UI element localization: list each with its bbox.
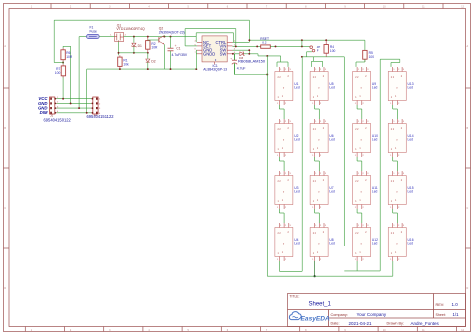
wire connector row 3	[57, 107, 92, 109]
connector J1 refdes	[50, 114, 54, 118]
junction jp row left	[301, 56, 303, 58]
LED module U10	[353, 119, 371, 157]
LED module U15	[388, 171, 406, 209]
svg-text:SW: SW	[220, 51, 227, 56]
net label DIM	[40, 110, 48, 115]
LED module U3	[275, 171, 293, 209]
junction D1 top	[133, 36, 135, 38]
junction return	[266, 74, 268, 76]
junction C1 gnd	[170, 68, 172, 70]
connector J2 pins	[91, 98, 101, 115]
wire U14 series link	[393, 157, 398, 171]
svg-text:4.7uF/35V: 4.7uF/35V	[172, 53, 188, 57]
wire C2 to return	[235, 74, 268, 76]
LED module U1	[275, 67, 293, 105]
svg-text:Led: Led	[372, 242, 378, 246]
junction row3	[78, 107, 80, 109]
wire col2 bottom ext	[314, 261, 316, 276]
label U6	[329, 134, 335, 142]
svg-text:Fuse: Fuse	[90, 29, 97, 33]
svg-text:100: 100	[330, 49, 336, 53]
wire ctrl rail	[249, 39, 365, 41]
label R6	[66, 51, 73, 59]
svg-text:Date:: Date:	[331, 322, 340, 326]
wire JP bottom hook	[307, 52, 312, 57]
pin number Q1 pin1	[110, 35, 112, 37]
junction R2 top	[147, 36, 149, 38]
svg-text:Led: Led	[294, 138, 300, 142]
diode D3	[240, 52, 245, 56]
connector J2 partnum	[87, 114, 115, 119]
junction Q2 collector	[163, 36, 165, 38]
LED module U5	[310, 67, 328, 105]
net label VCC	[38, 96, 48, 101]
label Q1 partnum	[116, 27, 145, 31]
wire fuse right	[99, 36, 115, 38]
wire col1 bottom ext	[279, 261, 302, 271]
title block Sheet row	[436, 312, 460, 317]
LED module U8	[310, 223, 328, 261]
wire intercol 3-4	[379, 59, 381, 271]
svg-text:Led: Led	[408, 242, 414, 246]
svg-text:2021-04-21: 2021-04-21	[349, 321, 373, 326]
wire col4 bottom ext	[392, 261, 394, 276]
junction R1 gnd	[119, 68, 121, 70]
LED module U6	[310, 119, 328, 157]
label U4	[294, 238, 300, 246]
wire bottom bus	[267, 275, 393, 277]
wire U9 series link	[357, 105, 362, 119]
wire R6 top loop	[63, 46, 71, 48]
label U2	[294, 134, 300, 142]
svg-text:Led: Led	[372, 190, 378, 194]
label R4	[330, 45, 336, 53]
wire SW2 to D3	[233, 53, 240, 55]
capacitor C2	[230, 54, 237, 75]
wire col4 top feed	[380, 59, 400, 67]
junction D2 gnd	[147, 68, 149, 70]
wire IC wrap over top	[196, 33, 233, 43]
wire SET loop	[185, 29, 236, 47]
wire VIN row left	[233, 45, 261, 47]
svg-text:10k: 10k	[123, 62, 129, 66]
net label GND	[38, 101, 48, 106]
label D1	[138, 44, 142, 48]
svg-text:4.7uF: 4.7uF	[237, 67, 246, 71]
resistor R2	[146, 37, 150, 53]
svg-text:DIM: DIM	[40, 110, 48, 115]
junction rail r4	[325, 39, 327, 41]
svg-text:Led: Led	[294, 190, 300, 194]
label U12	[372, 238, 378, 246]
label U14	[408, 134, 414, 142]
wire rail to R5	[364, 40, 366, 50]
IC pin names	[203, 40, 227, 62]
svg-text:Your Company: Your Company	[357, 312, 387, 317]
EasyEDA logo cloud	[289, 312, 301, 320]
junction gate row R2	[147, 52, 149, 54]
junction C2 tap	[232, 53, 234, 55]
connector J1 body	[50, 97, 55, 114]
LED module U16	[388, 223, 406, 261]
label F1	[90, 26, 97, 34]
title block Date row	[331, 321, 373, 326]
wire jp row	[302, 56, 344, 58]
svg-text:2N3904(SOT-23): 2N3904(SOT-23)	[159, 30, 185, 34]
wire Q2 base	[148, 39, 159, 41]
junction gate row D1	[133, 52, 135, 54]
junction vin row drop	[301, 45, 303, 47]
wire fuse feed drop	[78, 37, 80, 109]
wire U13 series link	[393, 105, 398, 119]
label U3	[294, 186, 300, 194]
wire U7 series link	[315, 209, 320, 223]
junction row4	[86, 112, 88, 114]
title block DrawnBy row	[387, 321, 440, 326]
label JP	[317, 45, 321, 52]
wire R6 bottom to R7 top	[62, 61, 64, 64]
label U10	[372, 134, 378, 142]
svg-text:C: C	[467, 207, 469, 210]
svg-text:Sheet_1: Sheet_1	[309, 302, 332, 308]
junction rset right	[275, 45, 277, 47]
wire ground bus	[87, 68, 197, 70]
wire U5 series link	[315, 105, 320, 119]
wire col1 feed	[277, 56, 288, 67]
svg-text:10R: 10R	[66, 55, 73, 59]
wire intercol 1-2	[301, 57, 303, 271]
label R2	[151, 42, 158, 50]
LED module U7	[310, 171, 328, 209]
junction C1 top	[170, 36, 172, 38]
wire CTRL to top bus	[233, 20, 250, 42]
label IC1 refdes	[213, 64, 218, 68]
wire D3 right	[244, 54, 258, 56]
svg-text:100: 100	[369, 55, 375, 59]
junction IC gnd	[195, 68, 197, 70]
wire IC GND down	[195, 50, 198, 69]
label D3 partnum	[238, 59, 266, 64]
svg-text:Andre_Fontes: Andre_Fontes	[411, 321, 440, 326]
resistor RSET	[261, 45, 271, 48]
connector J1 partnum	[44, 117, 72, 122]
resistor R5	[363, 50, 367, 62]
jumper JP	[310, 46, 315, 52]
pin number Q1 pin2	[125, 35, 127, 37]
label U9	[372, 82, 378, 90]
junction R6 R7 node	[62, 62, 64, 64]
svg-text:Led: Led	[372, 86, 378, 90]
wire U11 series link	[357, 209, 362, 223]
resistor R7	[61, 64, 65, 77]
wire rail to vin row	[301, 40, 303, 46]
label U13	[408, 82, 414, 90]
label RSET	[260, 37, 269, 45]
resistor R4	[324, 40, 328, 57]
label Q2 refdes	[159, 27, 164, 31]
junction d3 right	[248, 53, 250, 55]
label U1	[294, 82, 300, 90]
svg-text:F: F	[317, 49, 319, 53]
wire U10 series link	[357, 157, 362, 171]
svg-text:EasyEDA: EasyEDA	[301, 315, 331, 322]
wire VIN row right	[270, 45, 310, 47]
wire SW1 row	[233, 50, 250, 54]
wire VCC drop from R7	[62, 76, 64, 99]
title block grid	[288, 294, 466, 327]
wire U2 series link	[279, 157, 284, 171]
junction SET loop vin	[235, 45, 237, 47]
junction sw1	[248, 49, 250, 51]
wire U3 series link	[279, 209, 284, 223]
LED module U12	[353, 223, 371, 261]
wire U1 series link	[279, 105, 284, 119]
svg-text:695404150122: 695404150122	[44, 117, 72, 122]
wire DIM drop from gnd bus	[86, 69, 88, 113]
label Q1 refdes	[117, 23, 122, 27]
label R7	[55, 67, 61, 75]
label U15	[408, 186, 414, 194]
junction col2 bus	[314, 275, 316, 277]
wire connector row 1	[57, 98, 92, 100]
LED module U13	[388, 67, 406, 105]
label U16	[408, 238, 414, 246]
svg-text:+: +	[230, 56, 232, 60]
label R1	[123, 59, 129, 67]
title block sheet name Sheet_1	[309, 302, 332, 308]
svg-text:1/1: 1/1	[453, 312, 460, 317]
diode D1	[131, 43, 136, 47]
wire C1 bottom lead	[170, 51, 172, 69]
wire Q1 drain main	[124, 36, 197, 38]
junction output return tap	[266, 55, 268, 57]
wire top bus	[54, 19, 249, 21]
svg-text:D2: D2	[151, 60, 155, 64]
label R5	[369, 51, 375, 59]
svg-text:D: D	[4, 287, 6, 290]
svg-text:Led: Led	[329, 242, 335, 246]
connector J1 pins	[50, 97, 59, 114]
svg-text:Company:: Company:	[331, 313, 348, 317]
junction rail jp	[301, 39, 303, 41]
svg-text:TITLE:: TITLE:	[290, 295, 300, 299]
svg-text:Led: Led	[372, 138, 378, 142]
LED module U4	[275, 223, 293, 261]
wire intercol 2-3	[343, 57, 345, 246]
junction gate row left	[118, 52, 120, 54]
wire Q2 collector up	[163, 35, 165, 36]
title block Company row	[331, 312, 387, 317]
svg-text:VTD110N02RT4Q: VTD110N02RT4Q	[116, 27, 145, 31]
label U8	[329, 238, 335, 246]
wire R2 bottom to D2	[147, 53, 149, 59]
wire GND drop from R6 loop	[70, 46, 72, 103]
wire col3 bottom ext	[344, 261, 380, 271]
label U11	[372, 186, 378, 194]
svg-text:C1: C1	[176, 47, 180, 51]
svg-text:Led: Led	[329, 190, 335, 194]
junction row2	[70, 102, 72, 104]
op-amp U1 IC body AL8843	[197, 36, 233, 64]
svg-text:REV:: REV:	[436, 303, 445, 307]
svg-text:Led: Led	[294, 242, 300, 246]
wire Q2 emitter down	[163, 44, 165, 69]
svg-text:Led: Led	[294, 86, 300, 90]
transistor Q1	[115, 32, 124, 41]
fuse F1	[87, 34, 100, 38]
svg-text:Led: Led	[408, 138, 414, 142]
svg-text:Led: Led	[329, 138, 335, 142]
label C1	[176, 47, 180, 51]
wire U6 series link	[315, 157, 320, 171]
wire top bus left drop	[54, 20, 63, 62]
wire connector row 4	[57, 112, 92, 114]
wire D1 top lead	[133, 37, 135, 43]
label D2	[151, 60, 155, 64]
svg-text:Led: Led	[329, 86, 335, 90]
svg-text:695404151122: 695404151122	[87, 114, 115, 119]
title block REV label	[436, 302, 459, 307]
label Q2 partnum	[159, 30, 185, 34]
diode D2	[146, 59, 150, 62]
svg-text:Drawn By:: Drawn By:	[387, 322, 405, 326]
wire return vertical	[266, 56, 268, 276]
wire col2 feed	[312, 57, 323, 67]
svg-text:AL8843QSP-13: AL8843QSP-13	[203, 68, 227, 72]
LED module U14	[388, 119, 406, 157]
EasyEDA logo text	[301, 315, 331, 322]
label U5	[329, 82, 335, 90]
wire C1 top lead	[170, 37, 172, 49]
svg-text:GNDD: GNDD	[203, 51, 215, 56]
LED module U2	[275, 119, 293, 157]
resistor R6	[61, 48, 65, 61]
svg-text:100: 100	[55, 71, 61, 75]
connector J2 refdes	[94, 113, 98, 117]
svg-text:1.0: 1.0	[452, 302, 459, 307]
wire output row	[258, 55, 281, 57]
label U7	[329, 186, 335, 194]
wire gate row	[119, 52, 148, 54]
label C1 value	[172, 53, 188, 57]
svg-text:RB068LAM150: RB068LAM150	[238, 59, 266, 64]
wire col3 feed	[356, 59, 365, 67]
junction rail at ctrl	[248, 39, 250, 41]
junction row1	[62, 98, 64, 100]
svg-text:Sheet:: Sheet:	[436, 313, 446, 317]
label C2 value	[237, 67, 246, 71]
title block TITLE label	[290, 295, 300, 299]
label D3 refdes	[239, 56, 243, 60]
wire fuse left	[79, 36, 86, 38]
label IC1 partnum	[203, 68, 227, 72]
svg-text:10R: 10R	[151, 46, 158, 50]
LED module U11	[353, 171, 371, 209]
transistor Q2	[159, 36, 164, 45]
svg-text:0.2: 0.2	[262, 40, 267, 44]
svg-text:C: C	[4, 207, 6, 210]
connector pin junction dots	[54, 98, 93, 114]
wire U15 series link	[393, 209, 398, 223]
capacitor C1	[168, 44, 177, 51]
junction rset left	[256, 45, 258, 47]
wire connector row 2	[57, 102, 92, 104]
wire Q1 gate down	[118, 42, 120, 56]
LED module U9	[353, 67, 371, 105]
svg-text:D1: D1	[138, 44, 142, 48]
svg-text:Led: Led	[408, 86, 414, 90]
IC pin numbers	[194, 41, 235, 55]
wire D1 bottom lead	[133, 46, 135, 52]
svg-text:D: D	[467, 287, 469, 290]
resistor R1	[118, 55, 122, 69]
wire D2 bottom lead	[147, 62, 149, 69]
svg-text:Led: Led	[408, 190, 414, 194]
connector J2 body	[93, 97, 98, 114]
net label GND	[38, 106, 48, 111]
